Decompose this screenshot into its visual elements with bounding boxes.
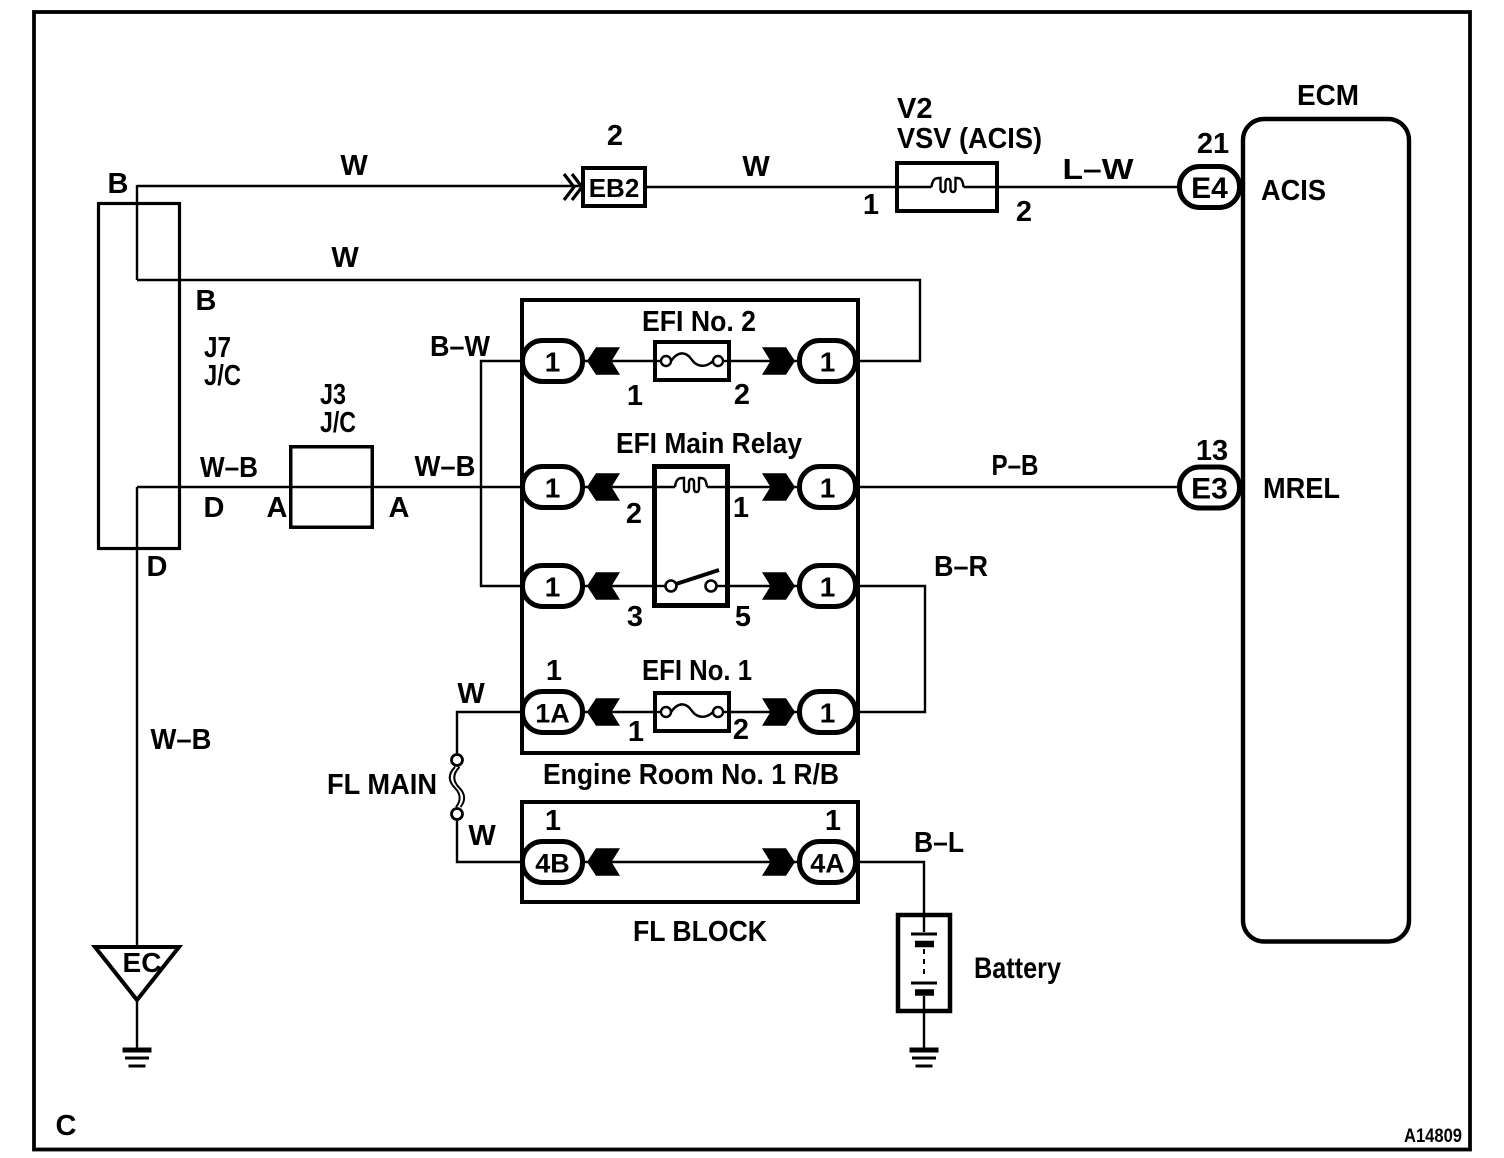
- arrow FL BLOCK right: [762, 848, 795, 876]
- svg-text:1: 1: [545, 473, 561, 504]
- svg-text:2: 2: [733, 714, 749, 746]
- svg-text:4B: 4B: [535, 849, 570, 879]
- svg-text:1: 1: [863, 189, 879, 221]
- svg-text:EFI No. 1: EFI No. 1: [642, 655, 752, 687]
- terminal 1 row3 right: [800, 566, 856, 607]
- svg-text:W: W: [340, 150, 368, 182]
- svg-text:B–R: B–R: [934, 551, 988, 583]
- svg-text:B–W: B–W: [430, 331, 491, 363]
- junction box J3: [291, 447, 373, 528]
- svg-text:1: 1: [825, 805, 841, 837]
- svg-text:J/C: J/C: [320, 407, 356, 439]
- ECM module box: [1243, 119, 1409, 942]
- terminal 1 row3 left: [523, 566, 583, 607]
- terminal 1 row1 left: [523, 341, 583, 382]
- svg-text:P–B: P–B: [992, 450, 1039, 482]
- wire W-B from J7 through J3: [137, 486, 522, 488]
- svg-text:2: 2: [734, 379, 750, 411]
- wire row4 fuse EFI No.1: [522, 711, 858, 713]
- arrow row1 right: [762, 347, 795, 375]
- ground point EC: [95, 947, 179, 1000]
- svg-text:W: W: [742, 151, 770, 183]
- svg-text:3: 3: [627, 601, 643, 633]
- svg-text:B: B: [108, 168, 129, 200]
- svg-text:13: 13: [1196, 435, 1228, 467]
- svg-text:EFI Main Relay: EFI Main Relay: [616, 428, 802, 460]
- arrow row4 right: [762, 698, 795, 726]
- svg-text:A: A: [267, 492, 288, 524]
- svg-text:1: 1: [733, 492, 749, 524]
- wire W FL MAIN bottom to 4B: [457, 819, 522, 862]
- box FL BLOCK: [522, 802, 858, 902]
- fuse EFI No.1: [653, 693, 731, 731]
- terminal 1A row4 left: [523, 692, 583, 733]
- svg-text:1: 1: [545, 805, 561, 837]
- terminal 1 row2 left: [523, 467, 583, 508]
- solenoid valve V2 VSV (ACIS): [897, 163, 997, 211]
- svg-text:1: 1: [820, 698, 836, 729]
- arrow row4 left: [587, 698, 620, 726]
- svg-text:EB2: EB2: [589, 173, 640, 203]
- wire B-W net: [481, 361, 522, 586]
- fuse EFI No.2: [653, 342, 731, 380]
- wire row3 relay switch: [522, 585, 858, 587]
- svg-text:E3: E3: [1191, 473, 1228, 506]
- arrow row2 right: [762, 473, 795, 501]
- svg-text:W–B: W–B: [200, 452, 258, 484]
- svg-text:21: 21: [1197, 128, 1229, 160]
- wire B-L to battery: [858, 862, 924, 914]
- svg-text:1: 1: [820, 347, 836, 378]
- svg-text:J/C: J/C: [204, 360, 241, 392]
- terminal 1 row2 right: [800, 467, 856, 508]
- svg-text:2: 2: [607, 120, 623, 152]
- wire row1 fuse EFI No.2: [522, 360, 858, 362]
- svg-text:A: A: [389, 492, 410, 524]
- svg-text:L–W: L–W: [1063, 154, 1135, 186]
- ground EC: [123, 1050, 152, 1066]
- terminal 1 row1 right: [800, 341, 856, 382]
- svg-text:4A: 4A: [810, 849, 845, 879]
- terminal E4 pin 21: [1180, 167, 1240, 208]
- wire B vertical in J7: [136, 185, 138, 280]
- wire W to FL MAIN top: [457, 712, 522, 755]
- svg-text:B: B: [196, 285, 217, 317]
- arrow row3 right: [762, 572, 795, 600]
- svg-text:2: 2: [626, 498, 642, 530]
- wire row FL BLOCK: [522, 861, 858, 863]
- svg-text:W–B: W–B: [151, 724, 212, 756]
- svg-text:1: 1: [820, 473, 836, 504]
- wire L-W VSV to E4: [997, 186, 1178, 188]
- wire battery to ground: [923, 1012, 925, 1050]
- svg-text:1: 1: [545, 572, 561, 603]
- fusible link FL MAIN: [450, 755, 464, 820]
- wire W-B down to EC ground: [136, 487, 138, 947]
- svg-text:EC: EC: [123, 947, 162, 978]
- svg-text:FL BLOCK: FL BLOCK: [633, 916, 767, 948]
- svg-text:ECM: ECM: [1297, 80, 1359, 112]
- svg-text:W: W: [457, 678, 485, 710]
- svg-text:1: 1: [627, 380, 643, 412]
- svg-text:FL MAIN: FL MAIN: [327, 769, 437, 801]
- relay/fuse box Engine Room No.1 R/B: [522, 300, 858, 753]
- terminal 1 row4 right: [800, 692, 856, 733]
- svg-text:1: 1: [628, 716, 644, 748]
- svg-text:W: W: [468, 820, 496, 852]
- svg-text:VSV (ACIS): VSV (ACIS): [897, 123, 1042, 155]
- svg-text:2: 2: [1016, 196, 1032, 228]
- relay EFI Main Relay: [652, 467, 730, 606]
- svg-text:D: D: [204, 492, 225, 524]
- arrow row2 left: [587, 473, 620, 501]
- svg-text:5: 5: [735, 601, 751, 633]
- terminal 4B FL BLOCK left: [523, 842, 583, 883]
- wire EC to ground: [136, 999, 138, 1050]
- svg-text:1: 1: [820, 572, 836, 603]
- svg-text:1A: 1A: [535, 699, 570, 729]
- svg-text:1: 1: [545, 347, 561, 378]
- wire B-R net: [858, 586, 925, 712]
- terminal E3 pin 13: [1180, 467, 1240, 508]
- svg-text:Engine Room No. 1 R/B: Engine Room No. 1 R/B: [543, 759, 839, 791]
- wire P-B to E3: [858, 486, 1178, 488]
- svg-text:B–L: B–L: [914, 827, 964, 859]
- svg-text:W: W: [331, 242, 359, 274]
- svg-text:V2: V2: [897, 93, 932, 125]
- terminal 4A FL BLOCK right: [800, 842, 856, 883]
- ground battery: [910, 1050, 939, 1066]
- battery: [898, 913, 950, 1012]
- svg-text:1: 1: [546, 655, 562, 687]
- svg-text:ACIS: ACIS: [1261, 175, 1326, 207]
- wire EB2 to VSV: [645, 186, 897, 188]
- wire W node B top: [137, 185, 581, 187]
- svg-text:C: C: [56, 1110, 77, 1142]
- svg-text:Battery: Battery: [974, 952, 1061, 985]
- svg-text:D: D: [147, 551, 168, 583]
- arrow row1 left: [587, 347, 620, 375]
- svg-text:EFI No. 2: EFI No. 2: [642, 306, 756, 338]
- svg-text:E4: E4: [1191, 172, 1228, 205]
- svg-text:A14809: A14809: [1404, 1126, 1462, 1147]
- wire W second from J7 to R/B: [137, 280, 920, 361]
- arrow row3 left: [587, 572, 620, 600]
- wire row2 relay coil: [522, 486, 858, 488]
- connector EB2: [564, 168, 645, 206]
- junction box J7: [99, 204, 180, 549]
- arrow FL BLOCK left: [587, 848, 620, 876]
- svg-text:MREL: MREL: [1263, 473, 1340, 505]
- svg-text:W–B: W–B: [415, 451, 476, 483]
